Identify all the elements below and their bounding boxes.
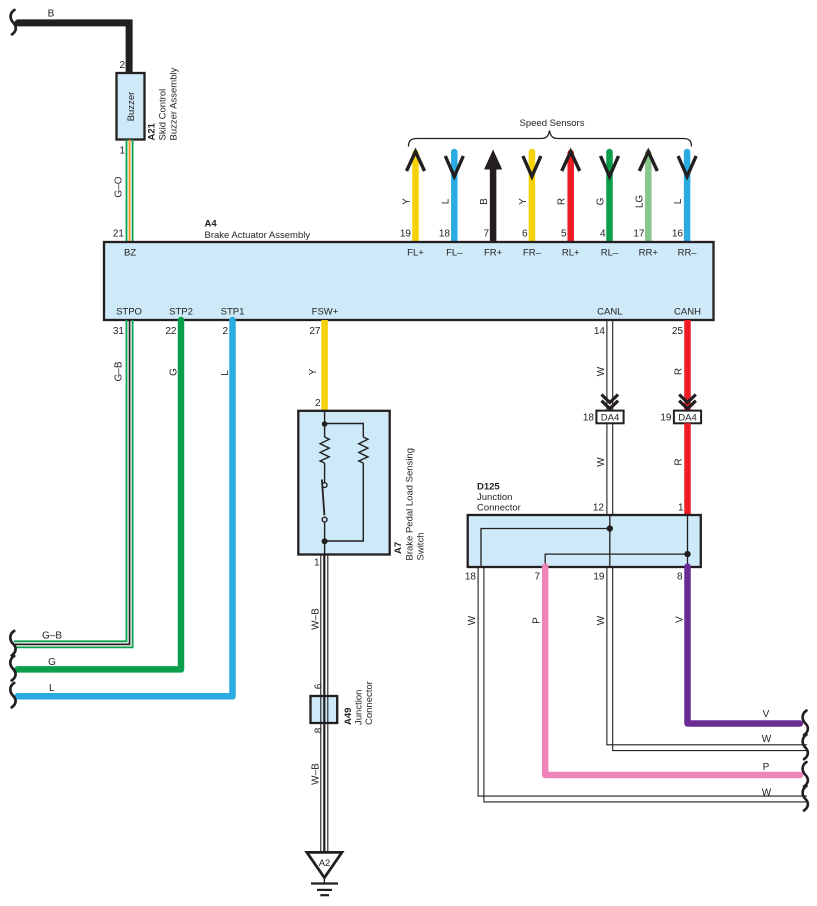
svg-text:W: W bbox=[596, 457, 607, 467]
wire W (CANL pin 14 to DA4) bbox=[607, 320, 613, 411]
svg-text:L: L bbox=[673, 198, 684, 204]
svg-text:22: 22 bbox=[165, 326, 177, 337]
svg-text:R: R bbox=[557, 198, 568, 205]
svg-text:P: P bbox=[532, 617, 543, 624]
svg-text:G: G bbox=[169, 368, 180, 376]
svg-text:L: L bbox=[440, 198, 451, 204]
wire break squiggle (G, left edge) bbox=[10, 656, 15, 681]
svg-text:4: 4 bbox=[600, 229, 606, 240]
svg-text:19: 19 bbox=[660, 413, 672, 424]
svg-text:DA4: DA4 bbox=[678, 413, 696, 424]
svg-text:STP1: STP1 bbox=[221, 307, 245, 318]
svg-text:A2: A2 bbox=[319, 858, 331, 869]
arrow up FR+ (solid) bbox=[484, 150, 502, 170]
svg-text:P: P bbox=[763, 762, 770, 773]
wire W (DA4 to D125 pin 12) bbox=[607, 423, 613, 515]
svg-text:CANL: CANL bbox=[597, 307, 622, 318]
sensor wire RL- (G) bbox=[606, 152, 613, 242]
svg-text:5: 5 bbox=[561, 229, 567, 240]
wire break squiggle (left edge, triple) bbox=[10, 631, 15, 656]
ground A2 triangle bbox=[307, 852, 342, 877]
wire W (D125 pin 18, down and right to break) bbox=[478, 567, 807, 802]
svg-text:FR–: FR– bbox=[523, 248, 542, 259]
svg-text:Buzzer: Buzzer bbox=[126, 92, 137, 122]
svg-text:W: W bbox=[596, 615, 607, 625]
wire R (CANH pin 25 to DA4) bbox=[684, 320, 691, 411]
svg-text:Junction: Junction bbox=[477, 492, 512, 503]
wire break squiggle (P, right edge) bbox=[803, 762, 808, 787]
A7 Brake Pedal Load Sensing Switch box bbox=[298, 411, 389, 555]
svg-text:RL+: RL+ bbox=[562, 248, 580, 259]
D125 internal: junction dot CANH bbox=[684, 551, 690, 557]
svg-text:W–B: W–B bbox=[311, 763, 322, 785]
svg-text:Skid Control: Skid Control bbox=[158, 89, 169, 141]
wire P (D125 pin 7, down and right to break) bbox=[545, 567, 800, 776]
A7 internal: resistor right bbox=[359, 437, 368, 463]
svg-text:7: 7 bbox=[534, 572, 540, 583]
svg-text:FL+: FL+ bbox=[407, 248, 424, 259]
svg-text:G–O: G–O bbox=[114, 176, 125, 197]
A4 Brake Actuator Assembly box bbox=[104, 242, 714, 320]
svg-text:W: W bbox=[762, 734, 772, 745]
D125 internal: CANL through wire bbox=[609, 515, 611, 567]
svg-text:Connector: Connector bbox=[364, 681, 375, 725]
svg-text:17: 17 bbox=[633, 229, 645, 240]
sensor wire FL+ (Y) bbox=[412, 153, 419, 242]
svg-text:A21: A21 bbox=[147, 122, 158, 140]
svg-text:A49: A49 bbox=[343, 708, 354, 725]
svg-text:Connector: Connector bbox=[477, 503, 521, 514]
arrow down FR- bbox=[523, 156, 541, 177]
D125 internal: pin18 riser and bus to CANL bbox=[481, 529, 610, 567]
wire Y (FSW+ pin 27 to A7 pin 2) bbox=[321, 320, 328, 411]
svg-text:19: 19 bbox=[593, 572, 605, 583]
svg-text:7: 7 bbox=[483, 229, 489, 240]
wire G (STP2 pin 22, down and left to break) bbox=[18, 320, 182, 669]
svg-text:27: 27 bbox=[309, 326, 321, 337]
sensor wire RL+ (R) bbox=[567, 153, 574, 242]
A7 internal: junction dot top bbox=[322, 421, 328, 427]
svg-text:B: B bbox=[479, 198, 490, 205]
sensor wire FR- (Y) bbox=[529, 152, 536, 242]
svg-text:R: R bbox=[674, 368, 685, 375]
svg-text:Brake Pedal Load Sensing: Brake Pedal Load Sensing bbox=[405, 448, 416, 561]
svg-text:STP2: STP2 bbox=[169, 307, 193, 318]
svg-text:RR+: RR+ bbox=[639, 248, 659, 259]
wire break squiggle (L, left edge) bbox=[10, 683, 15, 708]
arrow up FL+ bbox=[407, 152, 425, 172]
DA4 connector box (18) bbox=[596, 411, 623, 424]
wire L (STP1 pin 2, down and left to break) bbox=[18, 320, 233, 696]
wire break squiggle (W1, right edge) bbox=[803, 735, 808, 760]
A7 internal: junction dot bottom bbox=[322, 538, 328, 544]
svg-text:DA4: DA4 bbox=[601, 413, 619, 424]
svg-text:A7: A7 bbox=[393, 542, 404, 554]
wire W-B (A7 pin 1 through A49 to ground A2) bbox=[321, 555, 328, 853]
svg-text:W: W bbox=[596, 366, 607, 376]
svg-text:8: 8 bbox=[677, 572, 683, 583]
svg-text:STPO: STPO bbox=[116, 307, 142, 318]
svg-text:FR+: FR+ bbox=[484, 248, 503, 259]
svg-text:LG: LG bbox=[634, 195, 645, 209]
svg-text:V: V bbox=[763, 709, 770, 720]
A7 internal: right branch with resistor bbox=[325, 424, 364, 542]
svg-text:1: 1 bbox=[314, 558, 320, 569]
svg-text:Junction: Junction bbox=[354, 690, 365, 725]
svg-text:R: R bbox=[674, 458, 685, 465]
svg-text:W: W bbox=[467, 615, 478, 625]
svg-text:18: 18 bbox=[583, 413, 595, 424]
D125 junction connector box bbox=[468, 515, 701, 567]
svg-text:A4: A4 bbox=[205, 219, 218, 230]
A49 junction connector box bbox=[311, 696, 338, 723]
wire break squiggle (B wire, top left) bbox=[11, 10, 16, 35]
svg-text:Y: Y bbox=[518, 198, 529, 205]
arrow down RR- bbox=[678, 156, 696, 177]
svg-text:12: 12 bbox=[593, 503, 605, 514]
svg-text:W–B: W–B bbox=[311, 608, 322, 630]
wire break squiggle (W2, right edge) bbox=[803, 786, 808, 811]
wire break squiggle (V, right edge) bbox=[803, 711, 808, 736]
svg-text:2: 2 bbox=[119, 60, 125, 71]
wire G-B (STPO pin 31, striped, down and left to break) bbox=[14, 320, 133, 647]
Speed Sensors brace bbox=[409, 131, 692, 147]
svg-text:16: 16 bbox=[672, 229, 684, 240]
svg-text:RL–: RL– bbox=[601, 248, 619, 259]
svg-text:1: 1 bbox=[119, 146, 125, 157]
svg-text:6: 6 bbox=[314, 683, 325, 689]
svg-text:2: 2 bbox=[222, 326, 228, 337]
A7 internal: switch bbox=[322, 483, 327, 488]
svg-text:14: 14 bbox=[594, 326, 606, 337]
svg-text:1: 1 bbox=[678, 503, 684, 514]
svg-text:Switch: Switch bbox=[416, 533, 427, 561]
svg-text:G–B: G–B bbox=[42, 631, 62, 642]
wire R (DA4 to D125 pin 1) bbox=[684, 423, 691, 515]
D125 internal: pin7 riser and bus to CANH bbox=[545, 554, 687, 566]
svg-text:V: V bbox=[675, 616, 686, 623]
svg-text:Brake Actuator Assembly: Brake Actuator Assembly bbox=[205, 230, 311, 241]
connector arrows (CANL into DA4) bbox=[602, 395, 619, 409]
svg-text:L: L bbox=[49, 683, 55, 694]
svg-text:B: B bbox=[48, 9, 55, 20]
svg-text:31: 31 bbox=[113, 326, 125, 337]
svg-text:W: W bbox=[762, 788, 772, 799]
sensor wire RR+ (LG) bbox=[645, 153, 652, 242]
arrow up RL+ bbox=[562, 152, 580, 172]
svg-text:FL–: FL– bbox=[446, 248, 463, 259]
svg-text:D125: D125 bbox=[477, 482, 500, 493]
sensor wire FL- (L) bbox=[451, 152, 458, 242]
svg-text:Speed Sensors: Speed Sensors bbox=[520, 118, 585, 129]
ground symbol bbox=[323, 878, 325, 884]
sensor wire FR+ (B) bbox=[490, 165, 497, 242]
svg-text:8: 8 bbox=[314, 727, 325, 733]
svg-text:2: 2 bbox=[315, 398, 321, 409]
connector arrows (CANH into DA4) bbox=[679, 395, 696, 409]
svg-text:CANH: CANH bbox=[674, 307, 701, 318]
arrow up RR+ bbox=[639, 152, 657, 172]
DA4 connector box (19) bbox=[674, 411, 701, 424]
wire V (D125 pin 8, down and right to break) bbox=[688, 567, 801, 724]
svg-text:21: 21 bbox=[113, 229, 125, 240]
arrow down RL- bbox=[601, 156, 619, 177]
sensor wire RR- (L) bbox=[684, 152, 691, 242]
svg-text:L: L bbox=[220, 370, 231, 376]
svg-text:19: 19 bbox=[400, 229, 412, 240]
svg-text:18: 18 bbox=[439, 229, 451, 240]
svg-text:RR–: RR– bbox=[678, 248, 698, 259]
svg-text:G: G bbox=[48, 657, 56, 668]
svg-text:G–B: G–B bbox=[114, 361, 125, 381]
svg-text:G: G bbox=[596, 197, 607, 205]
svg-text:18: 18 bbox=[465, 572, 477, 583]
D125 internal: CANH through wire bbox=[687, 515, 689, 567]
svg-text:Buzzer Assembly: Buzzer Assembly bbox=[169, 67, 180, 140]
svg-text:6: 6 bbox=[522, 229, 528, 240]
svg-text:25: 25 bbox=[672, 326, 684, 337]
buzzer A21 box bbox=[117, 73, 145, 140]
svg-text:FSW+: FSW+ bbox=[312, 307, 339, 318]
D125 internal: junction dot CANL bbox=[607, 525, 613, 531]
arrow down FL- bbox=[445, 156, 463, 177]
svg-text:Y: Y bbox=[402, 198, 413, 205]
wire B (black, from break to buzzer pin 2) bbox=[18, 23, 129, 72]
A7 internal: resistor left bbox=[320, 437, 329, 463]
wire W (D125 pin 19, down and right to break) bbox=[607, 567, 807, 751]
wire G-O (buzzer to A4 pin 21) bbox=[127, 140, 133, 243]
svg-text:BZ: BZ bbox=[124, 248, 136, 259]
A7 internal: left branch wire bbox=[324, 412, 326, 554]
svg-text:Y: Y bbox=[308, 368, 319, 375]
